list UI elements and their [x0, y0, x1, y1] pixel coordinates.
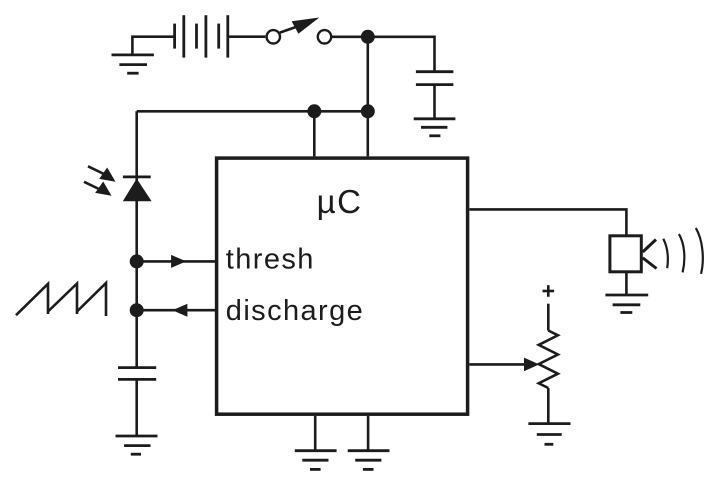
ground GND4 (speaker)	[605, 295, 648, 313]
svg-text:µC: µC	[317, 183, 363, 220]
wire plus to potentiometer	[547, 304, 550, 331]
photodiode D1	[123, 177, 152, 201]
wire node VCC to capacitor C1	[368, 37, 435, 72]
wire battery to switch	[228, 35, 265, 38]
wire capacitor C2 to ground	[135, 379, 138, 436]
wire uC gnd pin 2	[367, 416, 370, 451]
wire discharge	[137, 309, 215, 312]
light arrow 2 (into photodiode)	[84, 182, 112, 196]
junction J2	[307, 104, 321, 118]
junction J4 (thresh node)	[130, 254, 144, 268]
ground GND5 (potentiometer)	[528, 424, 570, 445]
ground GND6 (uC pin 1)	[295, 451, 337, 470]
wire ground to battery	[132, 37, 175, 55]
piezo speaker LS1	[610, 236, 657, 272]
capacitor C1	[416, 72, 454, 85]
wire uC to potentiometer wiper	[469, 363, 524, 366]
sound wave arc 2	[679, 234, 684, 272]
wire uC gnd pin 1	[314, 416, 317, 451]
svg-text:discharge: discharge	[226, 295, 364, 327]
wire supply bus	[137, 110, 368, 113]
svg-text:thresh: thresh	[226, 244, 315, 276]
battery BT1	[175, 15, 228, 57]
wire uC to speaker	[469, 209, 626, 234]
ground GND3 (capacitor C2)	[116, 436, 158, 454]
wire node VCC down to uC pin (vdd2)	[366, 37, 369, 157]
light arrow 1 (into photodiode)	[88, 166, 116, 182]
sawtooth waveform symbol	[16, 283, 106, 316]
capacitor C2 (timing cap)	[118, 368, 156, 380]
wire switch to node VCC	[331, 35, 368, 38]
arrow discharge (points left)	[172, 304, 187, 317]
arrow thresh (points right)	[171, 255, 186, 268]
junction J3	[361, 104, 375, 118]
microcontroller U1	[217, 158, 468, 414]
node VCC junction J1	[361, 30, 375, 44]
wire left rail (photodiode branch)	[135, 111, 138, 367]
switch S1	[267, 18, 332, 44]
arrow wiper (points right)	[524, 358, 539, 372]
wire speaker to ground	[625, 272, 628, 295]
wire thresh	[137, 260, 215, 263]
ground GND2 (capacitor C1)	[414, 119, 456, 136]
plus label (potentiometer supply)	[543, 285, 555, 297]
sound wave arc 3	[696, 228, 703, 274]
ground GND7 (uC pin 2)	[348, 451, 390, 470]
wire junction J2 to uC pin (vdd1)	[313, 111, 316, 156]
ground GND1 (battery negative)	[112, 55, 154, 73]
potentiometer R1	[539, 331, 558, 389]
junction J5 (discharge node)	[130, 303, 144, 317]
wire potentiometer to ground	[547, 388, 550, 424]
wire capacitor C1 to ground	[433, 85, 436, 119]
sound wave arc 1	[663, 239, 668, 268]
